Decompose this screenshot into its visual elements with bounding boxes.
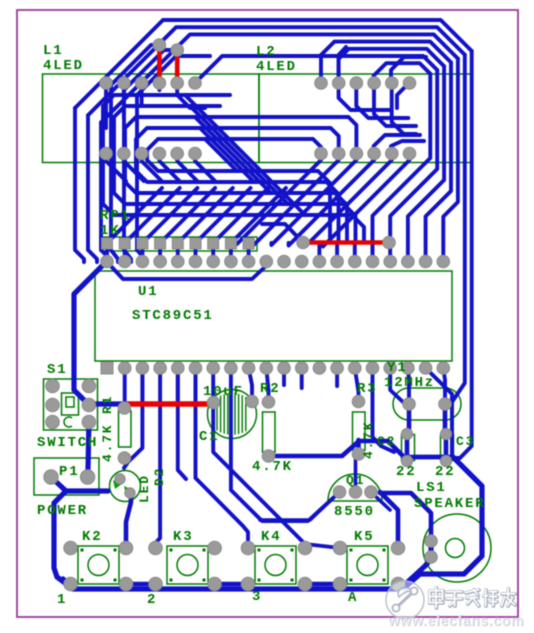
svg-text:K2: K2 [82, 529, 102, 545]
svg-text:R3: R3 [357, 381, 377, 397]
svg-text:4.7K: 4.7K [252, 459, 293, 475]
svg-text:4LED: 4LED [43, 58, 84, 74]
svg-text:L1: L1 [43, 43, 63, 59]
svg-text:C1: C1 [199, 429, 219, 445]
svg-text:3: 3 [252, 589, 262, 605]
svg-text:LED: LED [137, 474, 152, 503]
svg-text:1K: 1K [100, 223, 120, 239]
svg-text:K4: K4 [261, 529, 281, 545]
svg-text:STC89C51: STC89C51 [132, 308, 214, 324]
svg-text:SWITCH: SWITCH [37, 435, 98, 451]
svg-text:1: 1 [57, 592, 67, 608]
svg-text:22: 22 [396, 464, 416, 480]
svg-text:K3: K3 [173, 529, 193, 545]
svg-text:U1: U1 [138, 284, 158, 300]
svg-text:www.elecfans.com: www.elecfans.com [387, 613, 524, 629]
svg-text:4.7K R1: 4.7K R1 [100, 395, 115, 462]
svg-text:RP1: RP1 [100, 208, 131, 224]
svg-text:12MHz: 12MHz [384, 375, 435, 391]
svg-text:22: 22 [435, 464, 455, 480]
svg-text:LS1: LS1 [416, 480, 447, 496]
svg-text:R2: R2 [260, 381, 280, 397]
svg-text:A: A [348, 590, 358, 606]
svg-text:C2: C2 [377, 434, 396, 449]
svg-text:L2: L2 [256, 44, 276, 60]
svg-text:10uF: 10uF [203, 384, 244, 400]
svg-text:POWER: POWER [37, 503, 88, 519]
svg-text:4LED: 4LED [256, 59, 297, 75]
svg-text:C3: C3 [456, 434, 475, 449]
svg-text:8550: 8550 [334, 504, 375, 520]
svg-text:SPEAKER: SPEAKER [414, 496, 485, 512]
svg-text:D2: D2 [152, 467, 167, 486]
svg-text:Q1: Q1 [346, 473, 365, 488]
svg-text:4.7K: 4.7K [361, 421, 376, 459]
svg-text:K5: K5 [354, 529, 374, 545]
svg-text:Y1: Y1 [387, 360, 407, 376]
svg-text:S1: S1 [47, 362, 67, 378]
svg-text:2: 2 [147, 592, 157, 608]
svg-text:P1: P1 [59, 464, 79, 480]
